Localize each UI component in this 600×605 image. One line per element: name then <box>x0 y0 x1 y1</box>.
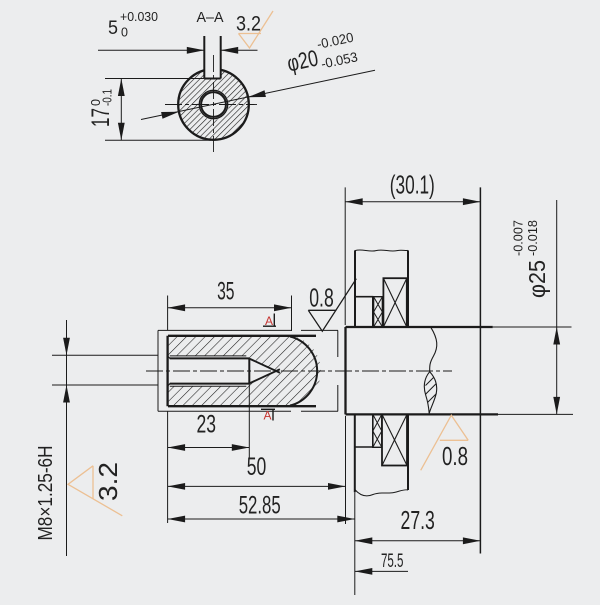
dimension 35 arrow right <box>274 304 292 311</box>
phi25 block left face <box>344 327 346 414</box>
flange lower wavy break <box>355 490 408 496</box>
shaft left face <box>166 336 168 406</box>
dimension 17 line <box>120 79 122 141</box>
svg-text:A: A <box>265 314 273 328</box>
phi25 extension line bottom <box>498 413 573 415</box>
lower bearing cross <box>382 414 407 465</box>
dimension 27.3 line <box>355 540 481 542</box>
dimension 50 arrow left <box>168 483 186 490</box>
keyway slot left line <box>203 36 205 79</box>
dimension 27.3 arrow right <box>463 537 481 544</box>
dimension 50 line <box>168 485 346 487</box>
lower bearing box <box>382 414 407 465</box>
svg-text:50: 50 <box>247 453 267 481</box>
M8 dimension line <box>66 320 68 556</box>
surface finish 3.2 left symbol <box>68 466 122 516</box>
tapped hole drill circle <box>201 92 226 117</box>
svg-text:52.85: 52.85 <box>239 491 281 519</box>
thread bottom thin line <box>170 385 247 387</box>
svg-text:φ25: φ25 <box>524 260 550 298</box>
flange lower divider <box>355 446 373 448</box>
svg-text:3.2: 3.2 <box>93 462 123 501</box>
dimension 17 arrow up <box>118 79 125 97</box>
left face extension line down <box>167 411 169 523</box>
surface finish 3.2 top symbol <box>239 11 274 48</box>
dimension 5 arrow right <box>221 47 239 54</box>
phi25 arrow up <box>553 327 560 345</box>
dimension 35 arrow left <box>168 304 186 311</box>
dimension 27.3 arrow left <box>355 537 373 544</box>
shaft thin outline left <box>157 330 159 411</box>
break lens left branch <box>424 372 429 414</box>
hole mouth chamfer top <box>168 356 171 358</box>
shaft bottom edge <box>168 405 316 407</box>
roughness 0.8 symbol tan <box>421 415 469 470</box>
lower seal cross pattern <box>373 414 382 431</box>
roughness 0.8 symbol black <box>308 279 356 332</box>
phi20 arrow right <box>248 90 266 97</box>
flange upper inner wall <box>372 297 374 327</box>
dimension 52.85 line <box>168 518 355 520</box>
dimension 75.5 line <box>355 570 408 572</box>
svg-text:+0.030: +0.030 <box>120 10 158 24</box>
dimension 30.1 arrow left <box>345 198 363 205</box>
phi25 block bottom edge <box>346 413 499 415</box>
circle vertical centerline <box>213 55 215 152</box>
drill cone lower line <box>249 369 280 383</box>
M8 thread extension line bottom <box>52 384 158 386</box>
flange lower plate right face <box>407 414 409 490</box>
break lens hatch <box>426 378 434 386</box>
svg-text:35: 35 <box>217 278 234 306</box>
dimension 17 arrow down <box>118 123 125 141</box>
flange lower inner wall <box>372 414 374 447</box>
phi20 diameter leader line <box>141 70 375 119</box>
keyway slot right line <box>220 36 222 79</box>
keyway slot mask <box>204 58 220 79</box>
dimension 23 extension right <box>248 384 250 458</box>
dimension 17 extension line top <box>105 78 204 80</box>
svg-text:3.2: 3.2 <box>236 13 261 36</box>
break line S-curve <box>430 327 437 371</box>
shaft hidden end line dashed <box>337 330 339 357</box>
tapped hole thread circle <box>199 90 227 118</box>
dimension 23 line <box>168 447 250 449</box>
dimension 50 arrow right <box>328 483 346 490</box>
svg-text:5: 5 <box>108 18 118 39</box>
phi25 block top edge <box>346 326 493 328</box>
svg-text:0.8: 0.8 <box>309 282 334 312</box>
dimension 52.85 arrow right <box>337 516 355 523</box>
svg-text:27.3: 27.3 <box>401 505 435 535</box>
section A-A shaft circle hatched <box>178 69 249 140</box>
flange upper plate left face <box>354 250 356 327</box>
dimension 17 extension line bottom <box>105 139 211 141</box>
text phi20 with tolerances <box>283 30 359 79</box>
dimension 23 arrow right <box>232 444 250 451</box>
phi25 arrow down <box>553 397 560 415</box>
section mark top tick <box>263 325 276 327</box>
main axis centerline <box>146 370 452 372</box>
svg-text:(30.1): (30.1) <box>390 169 435 199</box>
dimension 30.1 line <box>345 201 480 203</box>
svg-text:-0.1: -0.1 <box>101 89 115 106</box>
flange lower plate left face <box>354 414 356 492</box>
shaft thin outline top <box>158 329 291 331</box>
text 17 with tolerances rotated <box>87 89 115 127</box>
dimension 75.5 arrow <box>355 568 373 575</box>
thread top thin line <box>170 355 247 357</box>
dimension 50 extension right <box>345 416 347 524</box>
tapped hole top line <box>170 357 250 359</box>
circle horizontal centerline <box>165 104 257 106</box>
flange upper plate right face <box>407 250 409 327</box>
svg-text:75.5: 75.5 <box>381 551 404 572</box>
keyway slot bottom line <box>204 78 220 80</box>
dimension 30.1 extension right <box>479 187 481 553</box>
phi25 extension line top <box>493 326 572 328</box>
dimension 23 arrow left <box>168 444 186 451</box>
svg-text:-0.018: -0.018 <box>525 220 540 256</box>
break lens right branch <box>429 372 436 414</box>
tapped hole bottom line <box>170 383 250 385</box>
upper bearing cross <box>383 278 406 327</box>
phi25 dimension line <box>556 200 558 414</box>
shaft thin outline bottom <box>158 410 291 412</box>
upper bearing box <box>383 278 406 327</box>
dimension 30.1 arrow right <box>463 198 481 205</box>
upper seal box <box>374 297 383 327</box>
dimension 5 keyway width line left <box>98 49 204 51</box>
thread end line <box>248 358 250 383</box>
dimension 5 line right <box>221 49 258 51</box>
dimension 52.85 arrow left <box>168 516 186 523</box>
M8 thread extension line top <box>52 354 158 356</box>
svg-text:A: A <box>263 409 271 423</box>
svg-text:A–A: A–A <box>197 9 224 26</box>
dimension 35 extension left <box>167 296 169 331</box>
drill cone upper line <box>249 359 280 373</box>
M8 arrow up <box>63 385 70 403</box>
flange upper divider <box>355 296 373 298</box>
lower seal box <box>373 414 382 447</box>
svg-text:23: 23 <box>197 411 217 439</box>
hole mask circle <box>198 89 229 120</box>
dimension 5 arrow left <box>187 47 205 54</box>
dimension 35 extension right <box>291 296 293 332</box>
svg-text:0: 0 <box>121 26 128 40</box>
svg-text:-0.007: -0.007 <box>511 220 526 256</box>
outer circle outline phi20 <box>178 69 249 140</box>
shaft top edge <box>168 335 316 337</box>
dimension 52.85 extension right <box>354 492 356 595</box>
text phi25 with tolerances rotated <box>511 220 551 298</box>
phi20 arrow left <box>161 112 179 119</box>
dimension 30.1 extension left <box>344 187 346 325</box>
section mark bottom tick <box>261 408 275 410</box>
svg-text:17: 17 <box>87 108 115 127</box>
upper seal cross pattern <box>374 297 383 312</box>
hole mouth chamfer bottom <box>168 383 171 386</box>
flange upper wavy break <box>355 250 408 251</box>
svg-text:0.8: 0.8 <box>442 441 468 471</box>
dimension 35 line <box>168 307 292 309</box>
broken-out section boundary arc <box>290 337 317 406</box>
svg-text:M8×1.25-6H: M8×1.25-6H <box>35 446 57 541</box>
main shaft hatching <box>160 330 325 412</box>
M8 arrow down <box>63 338 70 356</box>
